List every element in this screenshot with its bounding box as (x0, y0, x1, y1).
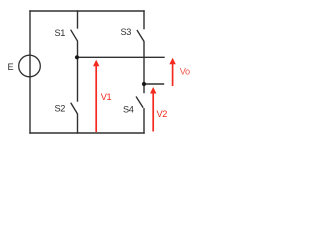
wire top bus (30, 10, 144, 12)
wire output stub node B (144, 83, 164, 85)
svg-text:S4: S4 (123, 105, 134, 115)
wire S3 top contact (143, 11, 145, 29)
wire S4 to bottom bus (143, 109, 145, 133)
svg-text:Vo: Vo (180, 66, 190, 76)
wire left rail (29, 11, 31, 133)
wire S3 to node B (143, 42, 145, 93)
svg-text:E: E (8, 62, 14, 72)
wire bottom bus (30, 132, 144, 134)
arrow Vo (172, 64, 174, 87)
arrow V1 (95, 65, 97, 133)
wire S2 to bottom bus (77, 114, 79, 133)
wire S1 to node A (77, 41, 79, 101)
svg-text:S1: S1 (55, 28, 66, 38)
svg-text:V1: V1 (101, 92, 112, 102)
source E circle (19, 55, 41, 77)
junction node A dot (75, 55, 79, 59)
svg-text:V2: V2 (157, 109, 168, 119)
switch S3 blade (137, 31, 143, 41)
svg-text:S2: S2 (55, 104, 66, 114)
svg-text:S3: S3 (121, 27, 132, 37)
junction node B dot (142, 82, 146, 86)
switch S1 blade (71, 30, 77, 40)
arrow V2 (152, 92, 154, 132)
wire middle (node A to right) (78, 56, 165, 58)
switch S4 blade (136, 97, 142, 107)
switch S2 blade (71, 103, 77, 113)
wire S1 top contact (77, 11, 79, 28)
